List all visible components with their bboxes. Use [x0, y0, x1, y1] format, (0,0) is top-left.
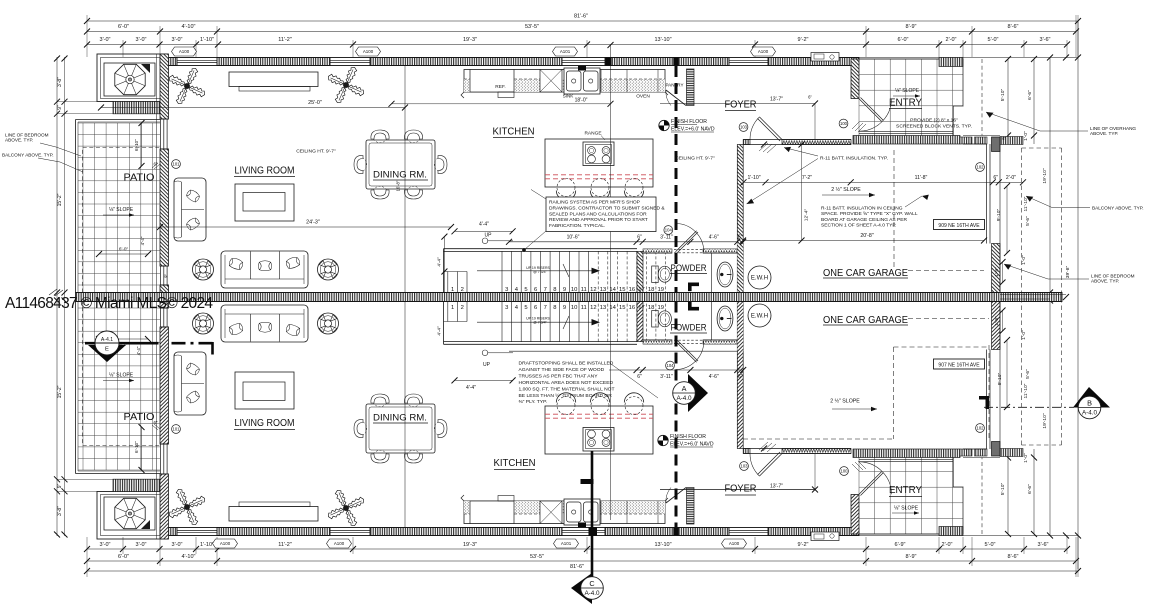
toilet	[652, 266, 659, 283]
stair risers 1-2	[444, 272, 468, 293]
west exterior wall	[160, 54, 169, 119]
svg-text:9'-10": 9'-10"	[997, 372, 1003, 385]
svg-text:5'-0": 5'-0"	[985, 542, 996, 548]
svg-text:102: 102	[976, 165, 984, 170]
svg-text:6'-0": 6'-0"	[119, 342, 129, 347]
svg-text:18: 18	[648, 287, 655, 293]
threshold hatch	[852, 122, 866, 132]
svg-text:13'-10": 13'-10"	[654, 542, 671, 548]
svg-text:ENTRY: ENTRY	[889, 98, 922, 109]
svg-text:⅜" PLY. TYP.: ⅜" PLY. TYP.	[519, 399, 548, 405]
svg-text:11: 11	[581, 287, 587, 293]
section marker B/A-4.0	[1073, 387, 1110, 408]
svg-text:6": 6"	[1002, 136, 1006, 141]
svg-text:12'-4": 12'-4"	[804, 208, 810, 221]
svg-text:7: 7	[544, 305, 547, 311]
powder door leaf and swing	[676, 231, 699, 253]
svg-text:5'-0": 5'-0"	[988, 37, 999, 43]
svg-text:6": 6"	[808, 95, 812, 100]
svg-text:ELEV.=+6.0' NAVD: ELEV.=+6.0' NAVD	[670, 442, 714, 448]
svg-text:6'-0": 6'-0"	[898, 37, 909, 43]
svg-text:11: 11	[581, 305, 587, 311]
svg-text:17: 17	[638, 287, 645, 293]
svg-text:104: 104	[666, 363, 674, 368]
svg-text:9": 9"	[57, 483, 63, 488]
section marker C/A-4.0	[571, 573, 592, 604]
window tag A100	[213, 539, 238, 548]
overhang dashed line	[981, 59, 983, 136]
svg-text:3'-8": 3'-8"	[57, 506, 63, 516]
svg-text:A-4.0: A-4.0	[1082, 410, 1098, 417]
door tag 104	[666, 361, 675, 370]
planter steps	[113, 102, 161, 114]
svg-text:1: 1	[451, 305, 454, 311]
north exterior wall	[160, 58, 859, 66]
svg-text:FINISH FLOOR: FINISH FLOOR	[671, 119, 707, 125]
svg-text:16: 16	[629, 287, 636, 293]
block vents	[960, 137, 972, 144]
dining table	[366, 140, 435, 189]
entry court tiles	[859, 59, 963, 136]
svg-text:100: 100	[840, 121, 848, 126]
foyer south wall segments	[743, 140, 750, 145]
svg-text:LIVING ROOM: LIVING ROOM	[235, 166, 295, 177]
window tag A100	[751, 47, 776, 56]
door tag 102	[976, 163, 985, 172]
svg-text:5'-6": 5'-6"	[1025, 216, 1031, 226]
loveseat sofa	[174, 178, 206, 241]
svg-text:A-4.0: A-4.0	[584, 590, 600, 597]
svg-text:8'-9": 8'-9"	[906, 24, 917, 30]
patio deck edge	[75, 120, 77, 293]
svg-text:3'-0": 3'-0"	[100, 542, 111, 548]
kitchen counter	[464, 70, 665, 93]
svg-text:A100: A100	[363, 49, 374, 54]
svg-text:2 ½" SLOPE: 2 ½" SLOPE	[830, 398, 860, 405]
svg-text:3'-6": 3'-6"	[1038, 542, 1049, 548]
svg-text:⅛" SLOPE: ⅛" SLOPE	[109, 373, 134, 379]
svg-text:15: 15	[619, 287, 626, 293]
svg-text:E.W.H: E.W.H	[751, 275, 768, 282]
bottom garage bedroom-above dashed	[894, 346, 990, 348]
oven/counter divider	[600, 70, 602, 93]
counter end caps	[461, 92, 668, 98]
window in north wall	[330, 58, 370, 66]
svg-text:103: 103	[740, 125, 748, 130]
svg-text:6'-9": 6'-9"	[895, 542, 906, 548]
window tag A101	[553, 47, 578, 56]
svg-text:14: 14	[609, 287, 616, 293]
svg-text:10: 10	[571, 287, 578, 293]
garage right lines	[963, 135, 1000, 137]
svg-text:LIVING ROOM: LIVING ROOM	[235, 418, 295, 429]
svg-text:5: 5	[524, 305, 527, 311]
window tag A100	[327, 539, 352, 548]
plant at living room window 2	[327, 66, 366, 105]
svg-text:24'-3": 24'-3"	[306, 220, 320, 226]
svg-text:⅛" SLOPE: ⅛" SLOPE	[895, 88, 920, 94]
coffee table	[235, 184, 294, 221]
svg-text:4'-10": 4'-10"	[181, 24, 195, 30]
svg-text:A-4.0: A-4.0	[676, 395, 692, 402]
20ft-8 dim line	[743, 240, 984, 242]
window in north wall	[729, 58, 768, 66]
svg-text:1'-0": 1'-0"	[1023, 131, 1029, 141]
svg-text:2'-0": 2'-0"	[946, 37, 957, 43]
13ft-7 dim line	[660, 103, 815, 105]
east wall of powder suite / garage west wall	[737, 145, 743, 293]
door tag 103	[739, 123, 748, 132]
top dimension row 3	[87, 44, 1067, 46]
svg-text:⅛" SLOPE: ⅛" SLOPE	[109, 207, 134, 213]
svg-text:KITCHEN: KITCHEN	[493, 127, 535, 138]
svg-text:@ 7 3/4": @ 7 3/4"	[533, 270, 547, 274]
svg-text:UP: UP	[485, 233, 493, 239]
svg-text:81'-6": 81'-6"	[574, 14, 588, 20]
finish floor benchmark symbol	[658, 435, 668, 445]
balcony above dashed rect	[1021, 148, 1023, 293]
bottom dimension row 1	[87, 570, 1078, 572]
svg-text:9": 9"	[164, 274, 169, 278]
svg-text:A101: A101	[561, 541, 572, 546]
door tag 103	[740, 462, 749, 471]
svg-text:8'-6": 8'-6"	[1008, 554, 1019, 560]
svg-text:A100: A100	[179, 49, 190, 54]
svg-text:6'-0": 6'-0"	[118, 24, 129, 30]
foyer corner hatch marks bottom	[759, 442, 776, 452]
svg-text:9": 9"	[57, 105, 63, 110]
svg-text:B: B	[1087, 399, 1092, 408]
svg-text:2'-0": 2'-0"	[942, 542, 953, 548]
window in north wall	[177, 58, 217, 66]
12ft-4 vertical dim	[801, 145, 803, 241]
section marker E patio	[88, 345, 126, 362]
svg-text:KITCHEN: KITCHEN	[494, 458, 536, 469]
svg-text:FOYER: FOYER	[725, 484, 757, 495]
svg-text:3'-11": 3'-11"	[660, 234, 673, 240]
svg-text:SPACE. PROVIDE ⅝" TYPE "X" GYP: SPACE. PROVIDE ⅝" TYPE "X" GYP. WALL	[821, 211, 918, 217]
corner column dark	[992, 137, 1001, 152]
svg-text:907 NE 16TH AVE: 907 NE 16TH AVE	[938, 362, 980, 368]
svg-text:SEALED PLANS AND CALCULATIONS: SEALED PLANS AND CALCULATIONS FOR	[549, 211, 647, 217]
svg-text:9: 9	[563, 287, 566, 293]
svg-text:81'-6": 81'-6"	[570, 564, 584, 570]
dishwasher	[540, 70, 562, 93]
svg-text:5'-6": 5'-6"	[1025, 369, 1031, 379]
left outer chain ticks	[54, 56, 68, 296]
left dimension lines	[56, 57, 58, 536]
door tag 104	[664, 226, 673, 235]
ceiling break line	[404, 66, 406, 293]
railing note box	[546, 197, 656, 232]
svg-text:11'-10": 11'-10"	[1023, 383, 1029, 398]
svg-text:ABOVE. TYP.: ABOVE. TYP.	[5, 138, 33, 143]
stair dims top	[443, 237, 445, 293]
svg-text:4'-4": 4'-4"	[140, 236, 145, 245]
svg-text:@ 7 3/4": @ 7 3/4"	[533, 321, 547, 325]
svg-text:A11468437 © Miami MLS© 2024: A11468437 © Miami MLS© 2024	[5, 295, 213, 312]
svg-text:1: 1	[451, 287, 454, 293]
svg-text:1'-10": 1'-10"	[200, 37, 214, 43]
svg-text:53'-5": 53'-5"	[525, 24, 539, 30]
balcony above dashed outline	[83, 148, 161, 293]
garage-foyer door 45	[757, 117, 782, 141]
svg-text:BALCONY ABOVE. TYP.: BALCONY ABOVE. TYP.	[2, 153, 54, 158]
entry step edge	[859, 130, 953, 132]
svg-text:18'-0": 18'-0"	[575, 98, 588, 104]
misc tick marks party wall left	[49, 289, 63, 296]
svg-text:A101: A101	[560, 49, 571, 54]
svg-text:6": 6"	[153, 162, 157, 167]
svg-text:DRAWINGS. CONTRACTOR TO SUBMIT: DRAWINGS. CONTRACTOR TO SUBMIT SIGNED &	[549, 205, 665, 211]
svg-text:39'-8": 39'-8"	[1065, 265, 1071, 278]
entry door swing	[859, 99, 892, 132]
svg-text:E: E	[105, 347, 109, 353]
svg-text:6'-10": 6'-10"	[134, 139, 139, 151]
patio tile grid	[78, 123, 160, 293]
center party wall	[76, 293, 1063, 302]
window tag A100	[356, 47, 381, 56]
svg-text:SINK: SINK	[563, 94, 574, 99]
svg-text:103: 103	[740, 464, 748, 469]
svg-text:A100: A100	[758, 49, 769, 54]
svg-text:7: 7	[544, 287, 547, 293]
svg-text:1,000 SQ. FT. THE MATERIAL SHA: 1,000 SQ. FT. THE MATERIAL SHALL NOT	[519, 386, 615, 392]
svg-text:SECTION 1 OF SHEET A-4.0 TYP.: SECTION 1 OF SHEET A-4.0 TYP.	[821, 223, 896, 229]
three-seat sofa	[221, 251, 308, 288]
svg-text:3'-0": 3'-0"	[136, 542, 147, 548]
svg-text:A: A	[682, 384, 687, 393]
section cut line C bottom	[591, 451, 594, 577]
door tag 100	[840, 467, 849, 476]
svg-text:8'-9": 8'-9"	[906, 554, 917, 560]
svg-text:53'-5": 53'-5"	[530, 554, 544, 560]
door tag 101	[172, 425, 181, 434]
svg-text:CEILING HT. 9'-7": CEILING HT. 9'-7"	[296, 149, 336, 155]
svg-text:R-11 BATT. INSULATION IN CEILI: R-11 BATT. INSULATION IN CEILING	[821, 206, 903, 212]
svg-text:BALCONY ABOVE. TYP.: BALCONY ABOVE. TYP.	[1092, 206, 1144, 211]
railing red dashed	[545, 174, 653, 176]
svg-text:1'-8": 1'-8"	[994, 267, 1000, 277]
section marker A/A-4.0	[688, 374, 708, 412]
svg-text:DINING RM.: DINING RM.	[373, 413, 427, 424]
svg-text:4'-4": 4'-4"	[437, 326, 442, 336]
corridor wall line	[509, 241, 743, 243]
tv console	[229, 72, 318, 87]
svg-text:2'-0": 2'-0"	[1006, 175, 1016, 181]
top garage dim line	[744, 181, 1024, 183]
svg-text:6: 6	[534, 305, 537, 311]
svg-text:REVIEW AND APPROVAL PRIOR TO S: REVIEW AND APPROVAL PRIOR TO START	[549, 217, 648, 223]
right outer verticals	[1063, 294, 1069, 300]
window tag A100	[172, 47, 197, 56]
svg-text:C: C	[589, 579, 594, 588]
entry court south wall	[853, 136, 960, 145]
lavatory	[717, 262, 733, 287]
cooktop	[583, 142, 614, 166]
stair risers 13-19 dashed	[598, 251, 665, 292]
ceiling fan symbol	[318, 259, 339, 280]
svg-text:11'-8": 11'-8"	[915, 175, 928, 181]
door tag 101	[172, 160, 181, 169]
svg-text:3: 3	[505, 305, 508, 311]
spa octagon	[115, 64, 145, 94]
svg-text:102: 102	[976, 426, 984, 431]
kitchen island	[545, 139, 653, 187]
svg-text:6'-6": 6'-6"	[1027, 484, 1033, 494]
svg-text:2 ½" SLOPE: 2 ½" SLOPE	[831, 186, 861, 193]
top dimension row 2	[87, 31, 1076, 33]
svg-text:RAILING SYSTEM AS PER MFR'S SH: RAILING SYSTEM AS PER MFR'S SHOP	[549, 200, 640, 206]
svg-text:R-11 BATT. INSULATION. TYP.: R-11 BATT. INSULATION. TYP.	[820, 156, 888, 162]
svg-text:6": 6"	[738, 374, 743, 380]
insulation bands	[643, 249, 672, 253]
svg-text:6'-0": 6'-0"	[118, 554, 129, 560]
svg-text:11'-2": 11'-2"	[278, 542, 292, 548]
svg-text:PATIO: PATIO	[124, 173, 155, 184]
stair risers 3-12 solid	[502, 251, 589, 292]
section line B dash-dot	[984, 406, 1074, 408]
window in west wall	[160, 119, 162, 149]
svg-text:PATIO: PATIO	[124, 412, 155, 423]
svg-text:18: 18	[648, 305, 655, 311]
svg-text:9: 9	[563, 305, 566, 311]
svg-text:13'-10": 13'-10"	[654, 37, 671, 43]
door tag 102	[976, 424, 985, 433]
svg-text:1'-10": 1'-10"	[200, 542, 214, 548]
svg-text:SCREENED BLOCK VENTS. TYP.: SCREENED BLOCK VENTS. TYP.	[896, 124, 972, 130]
svg-text:19'-3": 19'-3"	[463, 542, 477, 548]
svg-text:UP: UP	[483, 362, 491, 368]
svg-text:1'-10": 1'-10"	[747, 175, 760, 181]
dim extension lines top	[87, 15, 1078, 57]
kitchen sink	[564, 68, 600, 94]
svg-text:HORIZONTAL AREA DOES NOT EXCEE: HORIZONTAL AREA DOES NOT EXCEED	[519, 380, 614, 386]
pantry door	[666, 90, 686, 106]
svg-text:RANGE: RANGE	[584, 131, 601, 137]
court corner notch	[953, 106, 963, 136]
top garage bedroom-above dashed	[893, 150, 895, 267]
svg-text:A-4.1: A-4.1	[101, 337, 113, 343]
svg-text:14: 14	[609, 305, 616, 311]
svg-text:15: 15	[619, 305, 626, 311]
svg-text:13'-7": 13'-7"	[770, 97, 783, 103]
foyer east wall	[851, 59, 859, 99]
svg-text:19'-10": 19'-10"	[1042, 168, 1048, 183]
svg-text:2: 2	[461, 305, 464, 311]
svg-text:17: 17	[638, 305, 645, 311]
fire separation line	[675, 66, 678, 293]
garage east wall	[986, 144, 988, 244]
svg-text:4'-10": 4'-10"	[181, 554, 195, 560]
plant at living room window	[168, 67, 207, 106]
svg-text:FINISH FLOOR: FINISH FLOOR	[670, 434, 706, 440]
svg-text:5: 5	[524, 287, 527, 293]
svg-text:1'-0": 1'-0"	[1023, 453, 1029, 463]
corridor dims bottom	[609, 369, 743, 371]
svg-text:19: 19	[657, 287, 664, 293]
svg-text:8'-6": 8'-6"	[1008, 24, 1019, 30]
svg-text:6'-0": 6'-0"	[119, 247, 129, 252]
svg-text:DINING RM.: DINING RM.	[373, 170, 427, 181]
pantry wall	[687, 69, 695, 106]
svg-text:9'-2": 9'-2"	[798, 37, 809, 43]
powder west wall	[637, 251, 643, 292]
fire separation band crossings	[673, 58, 678, 66]
svg-text:4'-6": 4'-6"	[709, 234, 719, 240]
svg-text:12: 12	[590, 287, 597, 293]
svg-text:1'-0": 1'-0"	[1021, 330, 1027, 340]
svg-text:E.W.H: E.W.H	[751, 313, 768, 320]
svg-text:11'-2": 11'-2"	[278, 37, 292, 43]
svg-text:ELEV.=+6.0' NAVD: ELEV.=+6.0' NAVD	[671, 127, 715, 133]
svg-text:19: 19	[657, 305, 664, 311]
patio int dims	[141, 123, 143, 166]
svg-text:10: 10	[571, 305, 578, 311]
door tag 100	[839, 119, 848, 128]
svg-text:FABRICATION. TYPICAL.: FABRICATION. TYPICAL.	[549, 223, 605, 229]
svg-text:FOYER: FOYER	[725, 100, 757, 111]
electric water heater	[748, 266, 771, 289]
svg-text:16: 16	[629, 305, 636, 311]
svg-text:A100: A100	[220, 541, 231, 546]
finish floor benchmark symbol	[659, 120, 669, 130]
svg-text:15'-2": 15'-2"	[57, 385, 63, 398]
svg-text:3'-0": 3'-0"	[136, 37, 147, 43]
svg-text:BE LESS THAN ½" GYPSUM BOARD O: BE LESS THAN ½" GYPSUM BOARD OR	[519, 392, 613, 399]
1ft-8 dims garage doors	[1002, 262, 1004, 283]
svg-text:4'-4": 4'-4"	[136, 346, 141, 355]
window tag A101	[554, 539, 579, 548]
svg-text:TRUSSES AS PER FBC THAT ANY: TRUSSES AS PER FBC THAT ANY	[519, 373, 599, 379]
svg-text:12: 12	[590, 305, 597, 311]
svg-text:5'-10": 5'-10"	[1000, 482, 1006, 495]
up arrow	[477, 270, 592, 272]
spa planter box	[97, 54, 168, 102]
window in north wall	[562, 58, 605, 66]
svg-text:11'-10": 11'-10"	[1023, 196, 1029, 211]
svg-text:OVEN: OVEN	[636, 94, 650, 100]
svg-text:10'-6": 10'-6"	[567, 234, 580, 240]
window tag A100	[722, 539, 747, 548]
bar stools	[557, 179, 575, 197]
corridor dims top	[506, 239, 746, 245]
svg-text:3'-0": 3'-0"	[100, 37, 111, 43]
svg-text:101: 101	[172, 162, 180, 167]
powder door opening dashed	[674, 248, 704, 250]
svg-text:19'-3": 19'-3"	[463, 37, 477, 43]
garage door jamb marks	[979, 396, 989, 409]
bottom dimension row 2	[87, 560, 1076, 562]
svg-text:4'-4": 4'-4"	[479, 221, 489, 227]
svg-text:6": 6"	[153, 420, 157, 425]
svg-text:POWDER: POWDER	[671, 263, 707, 273]
section line C crossing marks	[606, 58, 612, 66]
svg-text:6": 6"	[637, 234, 642, 240]
svg-text:13'-7": 13'-7"	[770, 483, 783, 489]
svg-text:ONE CAR GARAGE: ONE CAR GARAGE	[823, 267, 908, 279]
foyer corner hatch marks top	[759, 143, 776, 153]
top dimension row 1	[87, 20, 1078, 22]
svg-text:3'-8": 3'-8"	[57, 77, 63, 87]
ceiling fan symbol	[193, 259, 214, 280]
svg-text:CEILING HT. 9'-7": CEILING HT. 9'-7"	[675, 156, 715, 162]
svg-text:13: 13	[600, 287, 607, 293]
svg-text:100: 100	[840, 469, 848, 474]
bottom dimension row 3	[87, 548, 1067, 550]
svg-text:3'-0": 3'-0"	[172, 542, 183, 548]
svg-text:PROVIDE (2) 8" x 16": PROVIDE (2) 8" x 16"	[910, 118, 958, 124]
